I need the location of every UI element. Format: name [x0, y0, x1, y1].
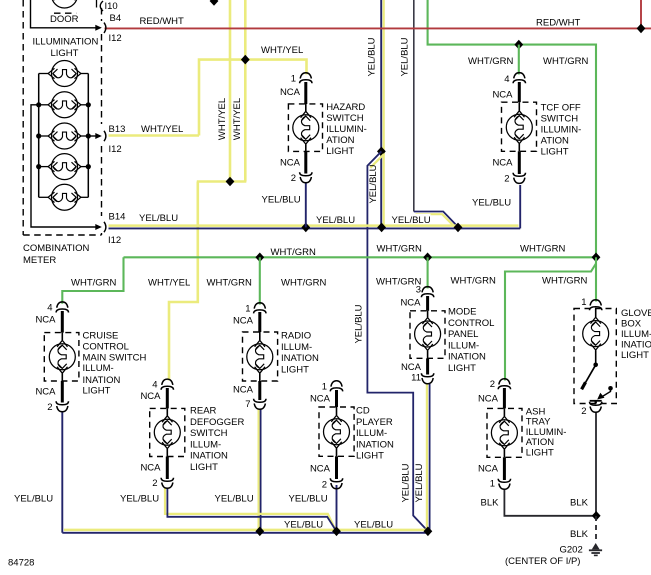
svg-text:CRUISE: CRUISE — [83, 330, 119, 341]
svg-text:YEL/BLU: YEL/BLU — [472, 198, 511, 209]
stem — [304, 82, 307, 104]
svg-text:LIGHT: LIGHT — [356, 451, 384, 462]
svg-text:CONTROL: CONTROL — [448, 318, 494, 329]
switch pivot dot — [593, 363, 598, 368]
wire YEL/BLU long path down — [367, 151, 427, 530]
wire WHT/YEL to rear defogger — [169, 182, 198, 381]
svg-text:INATION: INATION — [190, 451, 228, 462]
svg-text:1: 1 — [322, 382, 327, 393]
stem — [335, 390, 338, 407]
svg-text:INATION: INATION — [356, 439, 394, 450]
meter lamp stubs — [39, 74, 89, 198]
svg-text:I12: I12 — [108, 235, 121, 246]
svg-text:SWITCH: SWITCH — [326, 113, 364, 124]
svg-text:INATION: INATION — [83, 375, 121, 386]
wire WHT/YEL vertical V2 — [244, 0, 247, 182]
svg-text:2: 2 — [504, 174, 509, 185]
stem — [426, 358, 429, 374]
pin 2 glove connector — [590, 402, 602, 413]
svg-text:LIGHT: LIGHT — [83, 386, 111, 397]
svg-text:YEL/BLU: YEL/BLU — [284, 520, 323, 531]
svg-text:LIGHT: LIGHT — [526, 447, 554, 458]
wire WHT/GRN mode drop — [427, 257, 429, 288]
svg-text:LIGHT: LIGHT — [190, 462, 218, 473]
wire RED/WHT vertical right — [640, 0, 642, 28]
svg-text:ATION: ATION — [541, 136, 569, 147]
svg-text:ILLUMIN-: ILLUMIN- — [326, 124, 367, 135]
svg-text:WHT/YEL: WHT/YEL — [141, 124, 183, 135]
svg-text:YEL/BLU: YEL/BLU — [367, 37, 378, 76]
wire meter left branch to B14 — [31, 105, 100, 227]
svg-text:NCA: NCA — [35, 315, 56, 326]
svg-text:WHT/GRN: WHT/GRN — [543, 56, 589, 67]
svg-text:ATION: ATION — [326, 135, 354, 146]
lamp U-cd dashed box — [319, 407, 354, 456]
lamp TCF — [518, 102, 520, 110]
meter lamp bus right — [87, 74, 89, 198]
svg-text:ILLUM-: ILLUM- — [281, 342, 312, 353]
wire WHT/GRN left to cruise — [62, 257, 123, 303]
stem — [304, 151, 307, 173]
wire YEL/BLU rear defogger pin2 path — [165, 488, 335, 529]
pin 3 mode — [421, 287, 433, 298]
svg-text:2: 2 — [291, 173, 296, 184]
svg-text:LIGHT: LIGHT — [621, 350, 649, 361]
lamp cruise — [61, 333, 63, 341]
svg-text:WHT/GRN: WHT/GRN — [71, 278, 117, 289]
svg-text:YEL/BLU: YEL/BLU — [414, 463, 425, 502]
pin 1 glove — [590, 300, 602, 311]
pin 4 cruise — [56, 302, 68, 313]
wire WHT/GRN top — [428, 0, 596, 257]
svg-text:DEFOGGER: DEFOGGER — [190, 417, 245, 428]
stem — [61, 381, 64, 403]
svg-text:INATION: INATION — [621, 339, 651, 350]
svg-text:YEL/BLU: YEL/BLU — [401, 463, 412, 502]
svg-text:MODE: MODE — [448, 307, 477, 318]
svg-text:RED/WHT: RED/WHT — [536, 18, 581, 29]
meter lamp bus left — [38, 74, 40, 198]
lamp U-defogger dashed box — [150, 408, 185, 456]
wire WHT/YEL B13 horizontal — [109, 134, 200, 137]
svg-text:SWITCH: SWITCH — [190, 428, 228, 439]
svg-text:4: 4 — [504, 74, 509, 85]
wire YEL/BLU hazard pin2 drop — [305, 183, 307, 227]
svg-text:COMBINATION: COMBINATION — [23, 243, 89, 254]
stem — [335, 456, 338, 479]
svg-text:YEL/BLU: YEL/BLU — [120, 494, 159, 505]
lamp U-radio dashed box — [243, 332, 278, 381]
wire WHT/GRN radio drop — [259, 257, 261, 304]
svg-text:NCA: NCA — [233, 316, 254, 327]
pin 1 radio — [254, 303, 266, 314]
svg-text:BLK: BLK — [570, 498, 589, 509]
svg-text:BLK: BLK — [481, 498, 500, 509]
junction RED/WHT — [637, 24, 646, 34]
junction YEL/BLU bus2 cd — [332, 527, 341, 537]
svg-text:YEL/BLU: YEL/BLU — [354, 520, 393, 531]
junction YEL/BLU bus2 radio — [255, 527, 264, 537]
svg-text:TCF OFF: TCF OFF — [541, 103, 581, 114]
svg-text:ILLUM-: ILLUM- — [356, 428, 387, 439]
svg-text:WHT/GRN: WHT/GRN — [377, 244, 423, 255]
lamp DOOR (top, cut off) — [48, 0, 81, 8]
svg-text:B14: B14 — [109, 212, 126, 223]
svg-text:NCA: NCA — [280, 87, 301, 98]
junction WHT/YEL lower — [226, 177, 235, 187]
svg-text:ILLUMINATION: ILLUMINATION — [33, 37, 99, 48]
svg-text:NCA: NCA — [35, 387, 56, 398]
svg-text:INATION: INATION — [448, 352, 486, 363]
wire YEL/BLU long path diagonal yellow — [370, 154, 384, 168]
switch glove: wire to pivot — [595, 350, 597, 365]
wire YEL/BLU cruise pin2 drop — [61, 411, 63, 533]
svg-text:ILLUM-: ILLUM- — [83, 363, 114, 374]
lamp U-TCF dashed box — [502, 102, 537, 151]
pin 11 mode — [421, 373, 433, 384]
lamp radio — [259, 332, 261, 340]
combination meter dashed box — [23, 0, 101, 235]
stem — [595, 309, 597, 318]
junction BLK — [592, 511, 601, 521]
svg-text:YEL/BLU: YEL/BLU — [289, 494, 328, 505]
svg-text:11: 11 — [411, 373, 421, 384]
svg-text:ILLUM-: ILLUM- — [190, 439, 221, 450]
svg-text:WHT/YEL: WHT/YEL — [217, 98, 228, 140]
stem — [518, 82, 521, 102]
svg-text:1: 1 — [245, 304, 250, 315]
pin 2 defogger — [161, 478, 173, 489]
lamp U-hazard dashed box — [288, 104, 322, 151]
svg-text:I12: I12 — [109, 33, 122, 44]
lamp defogger — [166, 408, 168, 415]
stem — [258, 312, 261, 332]
connector B4/I12 — [104, 23, 106, 33]
svg-text:NCA: NCA — [400, 298, 421, 309]
lamp ash — [503, 408, 505, 416]
switch arm — [584, 365, 596, 386]
svg-text:CONTROL: CONTROL — [83, 341, 129, 352]
lamp meter 3 — [48, 123, 81, 149]
wire WHT/YEL vertical V1 — [229, 0, 232, 182]
wire WHT/GRN main bus — [124, 256, 597, 258]
connector B14/I12 — [104, 222, 106, 232]
svg-text:LIGHT: LIGHT — [51, 48, 79, 59]
wire YEL/BLU bus2 horizontal — [64, 529, 426, 532]
lamp meter 1 — [48, 61, 81, 87]
svg-text:INATION: INATION — [281, 353, 319, 364]
stem — [518, 151, 521, 174]
svg-text:WHT/GRN: WHT/GRN — [281, 278, 327, 289]
connector I10 — [100, 1, 103, 11]
lamp meter 4 — [48, 154, 81, 180]
svg-text:METER: METER — [23, 255, 56, 266]
svg-text:YEL/BLU: YEL/BLU — [262, 195, 301, 206]
svg-text:NCA: NCA — [492, 158, 513, 169]
wire WHT/YEL horizontal to hazard — [199, 60, 307, 136]
junction YEL/BLU bus1 VB — [454, 223, 463, 233]
lamp glove — [583, 317, 609, 350]
junction WHT/GRN glove — [592, 252, 601, 262]
svg-text:ILLUM-: ILLUM- — [621, 329, 651, 340]
lamp hazard — [305, 104, 307, 111]
lamp cd — [336, 407, 338, 415]
svg-text:CD: CD — [356, 406, 370, 417]
svg-text:ILLUM-: ILLUM- — [448, 340, 479, 351]
lamp U-cruise dashed box — [44, 333, 79, 381]
pin 1 ash — [498, 479, 510, 490]
ground G202 symbol — [589, 543, 602, 555]
lamp meter 2 — [48, 92, 81, 118]
svg-text:ILLUMIN-: ILLUMIN- — [541, 125, 582, 136]
svg-text:YEL/BLU: YEL/BLU — [139, 213, 178, 224]
wire YEL/BLU cd pin2 drop — [336, 485, 338, 531]
svg-text:(CENTER OF I/P): (CENTER OF I/P) — [505, 556, 580, 567]
pin 4 defogger — [161, 379, 173, 390]
lamp mode — [427, 311, 429, 318]
svg-text:BLK: BLK — [570, 529, 589, 540]
pin 1 cd — [330, 381, 342, 392]
svg-text:LIGHT: LIGHT — [281, 364, 309, 375]
stem — [166, 457, 169, 480]
svg-text:1: 1 — [490, 479, 495, 490]
svg-text:NCA: NCA — [401, 362, 422, 373]
wire YEL/BLU TCF riser — [519, 185, 521, 228]
wire YEL/BLU VB vertical — [413, 0, 415, 212]
stem — [258, 381, 261, 400]
switch contact lead with arrow — [602, 388, 611, 397]
svg-text:2: 2 — [322, 480, 327, 491]
svg-text:YEL/BLU: YEL/BLU — [399, 37, 410, 76]
junction YEL/BLU bus1 hazard — [301, 223, 310, 233]
svg-text:NCA: NCA — [310, 464, 331, 475]
label YEL/BLU above bus1 right — [389, 214, 431, 224]
wire BLK glove pin2 drop — [595, 412, 597, 516]
svg-text:NCA: NCA — [478, 394, 499, 405]
wire WHT/GRN glove drop — [595, 257, 597, 301]
switch contact dot — [608, 386, 613, 391]
wire YEL/BLU VB jog to bus — [414, 212, 458, 227]
svg-text:84728: 84728 — [8, 558, 34, 569]
svg-text:G202: G202 — [560, 545, 583, 556]
wire meter lamp3 to B13 — [88, 135, 100, 137]
svg-text:RED/WHT: RED/WHT — [140, 16, 185, 27]
svg-text:WHT/YEL: WHT/YEL — [232, 98, 243, 140]
svg-text:7: 7 — [245, 399, 250, 410]
svg-text:PANEL: PANEL — [448, 329, 478, 340]
svg-text:I10: I10 — [105, 1, 118, 12]
pin 2 glove T-bar — [590, 400, 602, 402]
svg-text:NCA: NCA — [492, 90, 513, 101]
junction WHT/GRN mode — [423, 252, 432, 262]
svg-text:WHT/YEL: WHT/YEL — [261, 45, 303, 56]
pin 2 hazard — [300, 172, 312, 183]
svg-text:2: 2 — [581, 406, 586, 417]
svg-text:WHT/GRN: WHT/GRN — [468, 56, 514, 67]
svg-text:BOX: BOX — [621, 319, 642, 330]
stem — [166, 388, 169, 408]
junction WHT/YEL at hazard feed — [241, 55, 250, 65]
svg-text:WHT/YEL: WHT/YEL — [148, 278, 190, 289]
svg-text:2: 2 — [152, 478, 157, 489]
svg-text:1: 1 — [291, 74, 296, 85]
svg-text:SWITCH: SWITCH — [541, 114, 579, 125]
wire WHT/GRN TCF drop — [518, 45, 520, 75]
wire BLK ash pin1 to junction — [504, 489, 596, 516]
lamp meter 5 — [48, 184, 81, 210]
pin 2 cd — [330, 478, 342, 489]
junction dots meter right bus — [86, 102, 91, 107]
svg-text:YEL/BLU: YEL/BLU — [316, 215, 355, 226]
wire DOOR to connector B4 — [31, 0, 101, 28]
svg-text:I12: I12 — [109, 144, 122, 155]
svg-text:WHT/GRN: WHT/GRN — [376, 277, 422, 288]
svg-text:LIGHT: LIGHT — [541, 147, 569, 158]
svg-text:2: 2 — [490, 379, 495, 390]
svg-text:RADIO: RADIO — [281, 331, 311, 342]
wire YEL/BLU mode pin11 drop — [426, 384, 428, 530]
svg-text:NCA: NCA — [310, 394, 331, 405]
svg-text:MAIN SWITCH: MAIN SWITCH — [83, 352, 147, 363]
svg-text:NCA: NCA — [280, 158, 301, 169]
stem — [503, 388, 506, 408]
wire YEL/BLU bus1 horizontal — [109, 224, 519, 227]
glove dashed box — [574, 309, 616, 404]
svg-text:NCA: NCA — [140, 463, 161, 474]
pin 4 TCF — [513, 73, 525, 84]
svg-text:HAZARD: HAZARD — [326, 102, 365, 113]
wire YEL/BLU pair VA vertical — [380, 0, 382, 228]
pin 1 hazard — [300, 73, 312, 84]
svg-text:LIGHT: LIGHT — [326, 146, 354, 157]
svg-text:YEL/BLU: YEL/BLU — [354, 304, 365, 343]
junction YEL/BLU bus2 end — [424, 527, 433, 537]
svg-text:NCA: NCA — [478, 464, 499, 475]
svg-text:GLOVE: GLOVE — [621, 308, 651, 319]
wire YEL/BLU radio pin7 drop — [258, 409, 260, 530]
lamp U-mode dashed box — [410, 311, 445, 359]
connector B13/I12 — [104, 131, 106, 141]
svg-text:1: 1 — [581, 297, 586, 308]
stem — [426, 296, 429, 311]
junction YEL/BLU bus1 VA — [377, 223, 386, 233]
junction WHT/GRN radio — [255, 252, 264, 262]
svg-text:YEL/BLU: YEL/BLU — [392, 215, 431, 226]
svg-text:2: 2 — [47, 402, 52, 413]
stem — [61, 311, 64, 333]
svg-text:NCA: NCA — [233, 385, 254, 396]
pin 2 TCF — [513, 173, 525, 184]
svg-text:WHT/GRN: WHT/GRN — [451, 276, 497, 287]
wire BLK dashed to ground — [595, 516, 597, 543]
svg-text:WHT/GRN: WHT/GRN — [271, 247, 317, 258]
junction WHT/GRN TCF — [514, 40, 523, 50]
svg-text:YEL/BLU: YEL/BLU — [14, 494, 53, 505]
junction YEL/BLU VA tap — [377, 147, 386, 157]
svg-text:NCA: NCA — [140, 391, 161, 402]
svg-text:YEL/BLU: YEL/BLU — [368, 164, 379, 203]
svg-text:REAR: REAR — [190, 406, 217, 417]
pin 2 cruise — [56, 401, 68, 412]
svg-text:4: 4 — [47, 303, 52, 314]
svg-text:WHT/GRN: WHT/GRN — [542, 276, 588, 287]
wire RED/WHT horizontal top — [105, 27, 651, 29]
svg-text:WHT/GRN: WHT/GRN — [207, 278, 253, 289]
svg-text:B4: B4 — [110, 13, 122, 24]
svg-text:PLAYER: PLAYER — [356, 417, 393, 428]
junction dots meter left bus — [36, 102, 41, 107]
wire WHT/GRN ash branch — [505, 264, 596, 381]
wire WHT/YEL lower link — [197, 180, 247, 183]
svg-text:4: 4 — [152, 380, 157, 391]
svg-text:LIGHT: LIGHT — [448, 363, 476, 374]
svg-text:DOOR: DOOR — [50, 14, 79, 25]
lamp U-ash dashed box — [487, 408, 522, 457]
svg-text:WHT/GRN: WHT/GRN — [520, 244, 566, 255]
svg-text:YEL/BLU: YEL/BLU — [215, 494, 254, 505]
pin 2 ash — [498, 379, 510, 390]
stem — [503, 457, 506, 480]
pin 7 radio — [254, 399, 266, 410]
junction stub top — [210, 0, 219, 6]
svg-text:B13: B13 — [109, 124, 126, 135]
